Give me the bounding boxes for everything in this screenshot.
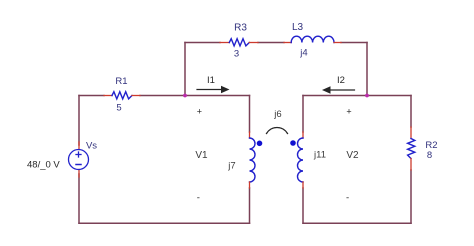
- wire: left loop top left segment: [79, 95, 104, 97]
- svg-text:j11: j11: [313, 150, 326, 161]
- wire: left loop right vertical upper (to j7): [249, 96, 251, 133]
- wire: left loop bottom: [79, 222, 250, 224]
- svg-text:8: 8: [427, 150, 432, 161]
- inductor j11: [298, 132, 304, 188]
- junction node A (left): [183, 94, 187, 98]
- wire: left loop left vertical lower: [78, 174, 80, 223]
- svg-text:V1: V1: [195, 150, 208, 161]
- wire: top branch horizontal right of L3: [341, 42, 367, 44]
- wire: top branch left vertical: [184, 43, 186, 96]
- wire: top branch horizontal left of R3: [185, 42, 220, 44]
- wire: top branch horizontal between R3 and L3: [258, 42, 284, 44]
- wire: left loop left vertical upper: [78, 96, 80, 146]
- resistor R2: [408, 127, 415, 170]
- inductor j7: [250, 132, 256, 188]
- inductor L3: [284, 36, 341, 42]
- wire: right loop top: [303, 95, 411, 97]
- svg-text:j7: j7: [227, 161, 235, 172]
- svg-text:5: 5: [116, 103, 121, 114]
- polarity dot of j11: [290, 140, 296, 146]
- svg-text:+: +: [197, 107, 202, 117]
- svg-text:Vs: Vs: [86, 141, 97, 152]
- polarity dot of j7: [257, 141, 263, 147]
- wire: top branch right vertical: [366, 43, 368, 96]
- svg-text:L3: L3: [292, 22, 304, 33]
- current arrow I2: [322, 86, 355, 93]
- wire: right loop right vertical lower (from R2): [410, 170, 412, 223]
- svg-text:R1: R1: [115, 76, 127, 87]
- svg-text:+: +: [346, 107, 351, 117]
- svg-text:-: -: [346, 193, 349, 204]
- wire: right loop left vertical upper (to j11): [302, 96, 304, 133]
- wire: right loop right vertical upper (to R2): [410, 96, 412, 128]
- source Vs: [69, 142, 89, 177]
- junction node B (right): [365, 94, 369, 98]
- coupling arc j6: [267, 128, 288, 134]
- svg-text:R3: R3: [234, 23, 247, 34]
- wire: left loop top right segment: [140, 95, 250, 97]
- resistor R3: [220, 39, 258, 46]
- current arrow I1: [197, 86, 230, 93]
- wire: right loop bottom: [303, 222, 411, 224]
- svg-text:j4: j4: [299, 48, 307, 59]
- svg-text:V2: V2: [346, 150, 359, 161]
- svg-text:I1: I1: [207, 75, 215, 86]
- svg-text:3: 3: [234, 49, 239, 60]
- svg-text:-: -: [197, 193, 200, 204]
- svg-text:48/_0 V: 48/_0 V: [27, 160, 60, 171]
- svg-text:j6: j6: [273, 109, 281, 120]
- resistor R1: [104, 92, 140, 99]
- wire: left loop right vertical lower (from j7): [249, 188, 251, 223]
- svg-text:I2: I2: [337, 75, 345, 86]
- wire: right loop left vertical lower (from j11): [302, 188, 304, 223]
